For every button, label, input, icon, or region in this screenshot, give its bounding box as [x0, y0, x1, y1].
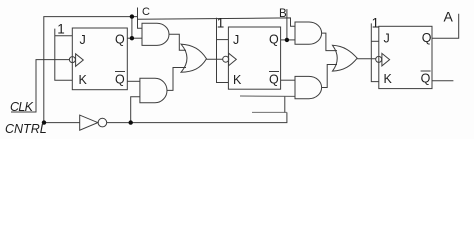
svg-text:Q: Q [422, 31, 432, 45]
svg-text:K: K [384, 72, 393, 86]
svg-text:A: A [444, 9, 454, 25]
svg-text:1: 1 [217, 16, 225, 31]
svg-text:J: J [233, 33, 239, 47]
svg-text:Q: Q [421, 72, 431, 86]
svg-text:1: 1 [57, 22, 65, 37]
svg-text:Q: Q [269, 33, 279, 47]
svg-text:K: K [79, 73, 88, 87]
svg-text:J: J [384, 32, 390, 46]
svg-text:B: B [279, 8, 287, 20]
svg-text:CNTRL: CNTRL [5, 122, 47, 136]
svg-text:C: C [142, 6, 150, 18]
svg-text:Q: Q [115, 33, 125, 47]
svg-text:CLK: CLK [10, 100, 34, 114]
svg-text:J: J [80, 33, 86, 47]
svg-text:1: 1 [372, 15, 380, 30]
svg-text:K: K [233, 73, 242, 87]
svg-text:Q: Q [269, 73, 279, 87]
svg-text:Q: Q [115, 73, 125, 87]
